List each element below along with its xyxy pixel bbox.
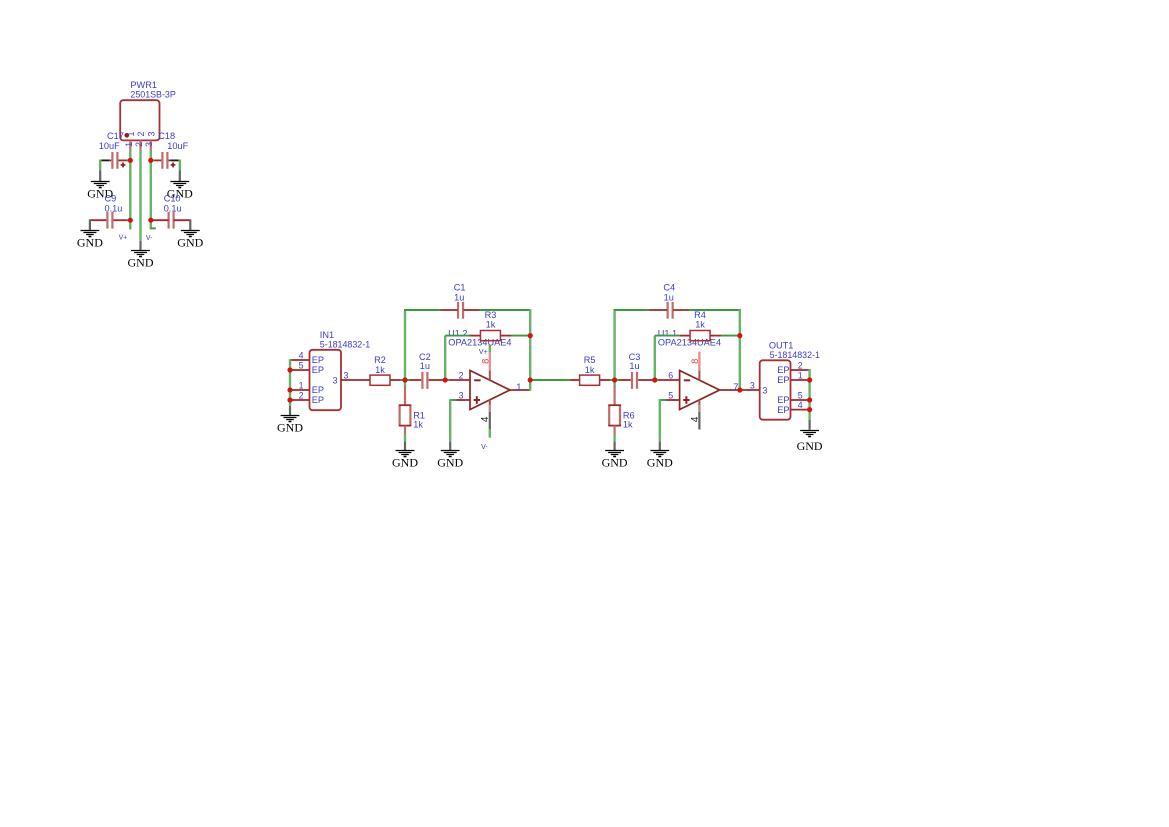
op-amp non-inverting input pin 5 [666, 399, 680, 401]
junction node B2 [652, 377, 657, 382]
IN1 pin 4 stub [290, 359, 310, 361]
wire junction to R1 [404, 380, 406, 387]
connector OUT1 body [760, 360, 791, 419]
junction R4/output net [737, 333, 742, 338]
gnd stub IN1 [289, 406, 291, 416]
R4 left pin [680, 335, 690, 337]
wire C17 to GND (black segment) [100, 159, 109, 161]
svg-text:OUT1: OUT1 [769, 340, 794, 350]
wire C18 to pin3 junction [151, 159, 155, 161]
svg-text:GND: GND [647, 456, 673, 470]
op-amp U1.2 pin 4 wire tail [489, 429, 491, 438]
op-amp power pin 4 [489, 400, 491, 406]
wire R5 to junction [610, 379, 620, 381]
svg-text:4: 4 [480, 416, 491, 422]
OUT1 pin 1 stub [791, 379, 810, 381]
junction C18/pin3 [148, 158, 153, 163]
op-amp power pin 8 [698, 352, 700, 371]
svg-text:1: 1 [516, 382, 521, 393]
svg-text:1k: 1k [486, 319, 496, 329]
svg-text:1k: 1k [375, 365, 385, 375]
R1 bottom pin [404, 426, 406, 435]
gnd stub PWR1 pin2 [139, 241, 141, 251]
capacitor C10 label [164, 194, 182, 214]
ground at PWR1 pin 2 [128, 251, 154, 270]
svg-text:EP: EP [312, 365, 324, 375]
svg-text:1k: 1k [585, 365, 595, 375]
svg-text:5-1814832-1: 5-1814832-1 [320, 340, 370, 350]
svg-text:C4: C4 [663, 282, 675, 292]
OUT1 pin numbers [798, 360, 803, 410]
svg-text:1k: 1k [623, 419, 633, 429]
gnd stub below R6 [613, 442, 615, 451]
svg-text:PWR1: PWR1 [130, 80, 157, 90]
ground at C17 [87, 182, 113, 201]
capacitor C1 [440, 302, 480, 319]
wire R3 to output node [511, 335, 530, 337]
IN1 pin names EP [312, 355, 324, 405]
wire C4 top left [614, 309, 650, 311]
capacitor C3 [619, 372, 652, 389]
PWR1 pin 2 stub [139, 140, 141, 150]
wire non-inverting input to gnd [660, 399, 667, 401]
capacitor C9 [90, 212, 128, 229]
capacitor C2 label [419, 352, 431, 371]
R6 bottom pin [613, 426, 615, 435]
junction node A1 [402, 377, 407, 382]
IN1 pin 3 stub / wire to R2 [341, 379, 370, 381]
gnd stub C9 [89, 219, 91, 230]
wire R4 left vertical [654, 336, 656, 381]
R6 top pin [613, 386, 615, 405]
connector OUT1 label [769, 340, 820, 360]
gnd stub C10 [189, 219, 191, 230]
svg-text:V-: V- [481, 444, 488, 451]
ground below R1 [392, 451, 418, 470]
resistor R3 [480, 310, 500, 341]
ground below + input [437, 451, 463, 470]
op-amp inverting input pin 6 [659, 379, 679, 381]
svg-text:3: 3 [750, 380, 755, 390]
svg-text:EP: EP [312, 395, 324, 405]
svg-text:1k: 1k [695, 319, 705, 329]
wire R3 left vertical [444, 336, 446, 381]
gnd stub below R1 [404, 442, 406, 451]
gnd stub non-inverting [449, 442, 451, 451]
connector PWR1 body [120, 100, 159, 140]
svg-text:4: 4 [690, 416, 701, 422]
IN1 pin numbers [299, 350, 304, 400]
svg-text:2: 2 [134, 142, 144, 147]
ground at C9 [77, 231, 103, 250]
wire C2 to op-amp junction [443, 379, 451, 381]
ground at IN1 [277, 416, 303, 435]
gnd stub C18 [179, 170, 181, 181]
junction C9/pin1 [128, 218, 133, 223]
svg-text:GND: GND [437, 456, 463, 470]
op-amp U1.2 [470, 371, 510, 410]
PWR1 pin 1 stub [129, 140, 131, 150]
PWR1 pin-1 marker dot [125, 133, 130, 138]
svg-text:V+: V+ [479, 349, 488, 356]
IN1 pin 1 stub [290, 389, 310, 391]
svg-text:GND: GND [392, 456, 418, 470]
wire to R3 [445, 335, 470, 337]
R3 right pin [501, 335, 512, 337]
svg-text:EP: EP [777, 395, 789, 405]
R3 left pin [470, 335, 480, 337]
wire stage1 output to R5 [530, 379, 570, 381]
svg-text:1u: 1u [664, 293, 674, 303]
junction IN1 pin5 [287, 367, 292, 372]
svg-text:EP: EP [777, 375, 789, 385]
capacitor C9 label [105, 194, 123, 214]
svg-text:IN1: IN1 [320, 330, 334, 340]
wire R2 to junction [400, 379, 410, 381]
PWR1 pin names 1 2 3 (rotated) [124, 142, 154, 147]
op-amp U1.2 label [448, 328, 511, 347]
svg-text:3: 3 [333, 375, 338, 385]
svg-text:2501SB-3P: 2501SB-3P [130, 90, 175, 100]
svg-text:GND: GND [602, 456, 628, 470]
capacitor C1 label [454, 282, 466, 302]
ground below R6 [602, 451, 628, 470]
wire R4 to output node [721, 335, 740, 337]
svg-text:3: 3 [144, 142, 154, 147]
wire C3 to op-amp junction [652, 379, 660, 381]
gnd stub C17 [99, 170, 101, 181]
svg-text:C18: C18 [158, 131, 175, 141]
svg-text:GND: GND [128, 256, 154, 270]
op-amp U1.2 power pin 8 wire tip [489, 345, 491, 352]
capacitor C4 label [663, 282, 675, 302]
ground below + input [647, 451, 673, 470]
svg-text:4: 4 [798, 400, 803, 410]
connector IN1 body [310, 350, 342, 410]
op-amp output pin 1 [510, 389, 530, 391]
capacitor C17 [109, 152, 127, 169]
op-amp pin 4 stub (gray) [698, 411, 700, 429]
svg-text:C1: C1 [454, 282, 466, 292]
OUT1 pin 2 stub [791, 369, 810, 371]
ground at C10 [177, 231, 203, 250]
svg-text:EP: EP [777, 365, 789, 375]
junction C10/pin3 [148, 218, 153, 223]
resistor R2 [370, 355, 390, 385]
wire non-inverting gnd vertical [449, 399, 451, 442]
junction stage2 output [737, 387, 742, 392]
wire V- net vertical (PWR1 pin 3) [150, 150, 152, 229]
R5 right pin [600, 379, 611, 381]
capacitor C18 label [158, 131, 188, 151]
svg-text:EP: EP [312, 385, 324, 395]
svg-text:5: 5 [668, 390, 673, 400]
junction C17/pin1 [128, 158, 133, 163]
junction IN1 pin2 [287, 397, 292, 402]
svg-text:EP: EP [312, 355, 324, 365]
wire IN1 ground bus [289, 359, 291, 406]
svg-text:4: 4 [299, 350, 304, 360]
wire junction to R6 [613, 380, 615, 387]
capacitor C17 label [99, 131, 124, 151]
resistor R1 [399, 405, 425, 429]
wire to R4 [655, 335, 680, 337]
svg-text:C9: C9 [105, 194, 117, 204]
svg-text:3: 3 [146, 131, 156, 136]
wire output node vertical [739, 309, 741, 391]
capacitor C10 [153, 212, 191, 229]
junction IN1 pin1 [287, 387, 292, 392]
svg-text:5-1814832-1: 5-1814832-1 [770, 350, 820, 360]
IN1 pin 5 stub [290, 369, 310, 371]
wire V+ net vertical (PWR1 pin 1) [129, 150, 131, 230]
junction stage1 output [528, 377, 533, 382]
op-amp pin 4 stub (gray) [489, 411, 491, 429]
gnd stub non-inverting [659, 442, 661, 451]
wire non-inverting gnd vertical [659, 399, 661, 442]
OUT1 pin names EP [777, 365, 789, 415]
wire GND net vertical (PWR1 pin 2) [139, 150, 141, 241]
ground at C18 [167, 182, 193, 201]
svg-text:1u: 1u [454, 293, 464, 303]
svg-text:5: 5 [798, 390, 803, 400]
capacitor C3 label [629, 352, 641, 371]
svg-text:1: 1 [798, 370, 803, 380]
junction node A2 [612, 377, 617, 382]
connector IN1 label [320, 330, 370, 350]
svg-text:3: 3 [344, 370, 349, 380]
R4 right pin [710, 335, 721, 337]
svg-text:5: 5 [299, 360, 304, 370]
svg-text:2: 2 [459, 370, 464, 380]
wire V- net stub horizontal [151, 227, 156, 229]
junction node B1 [443, 377, 448, 382]
OUT1 pin 3 stub [740, 389, 760, 391]
wire OUT1 ground bus [808, 369, 810, 420]
PWR1 pin numbers 1 2 3 (rotated) [126, 131, 156, 136]
svg-text:1u: 1u [420, 361, 430, 371]
svg-text:2: 2 [798, 360, 803, 370]
ground at OUT1 [797, 431, 823, 454]
svg-text:1: 1 [299, 380, 304, 390]
svg-text:1k: 1k [413, 419, 423, 429]
svg-text:GND: GND [797, 439, 823, 453]
wire non-inverting input to gnd [450, 399, 457, 401]
wire R6 to gnd [613, 434, 615, 441]
R2 right pin [390, 379, 401, 381]
wire output node vertical [529, 309, 531, 391]
svg-text:R2: R2 [374, 355, 386, 365]
op-amp inverting input pin 2 [450, 379, 470, 381]
junction OUT1 pin1 [807, 377, 812, 382]
svg-text:3: 3 [459, 390, 464, 400]
svg-text:8: 8 [480, 359, 491, 364]
svg-text:10uF: 10uF [99, 141, 120, 151]
wire R1 to gnd [404, 434, 406, 441]
wire C1 top left [404, 309, 440, 311]
op-amp non-inverting input pin 3 [456, 399, 470, 401]
wire C4 top right [689, 309, 740, 311]
junction OUT1 pin5 [807, 397, 812, 402]
svg-text:10uF: 10uF [167, 141, 188, 151]
svg-text:GND: GND [277, 421, 303, 435]
resistor R4 [690, 310, 710, 341]
svg-text:1: 1 [124, 142, 134, 147]
resistor R5 [580, 355, 600, 385]
wire C17 to pin1 junction [127, 159, 131, 161]
svg-text:2: 2 [299, 390, 304, 400]
svg-text:GND: GND [77, 235, 103, 249]
svg-text:1u: 1u [629, 361, 639, 371]
op-amp power pin 8 [489, 352, 491, 371]
wire C9 to pin1 junction [127, 219, 131, 221]
op-amp U1.1 label [658, 328, 721, 347]
wire C17 gnd vertical [99, 160, 101, 171]
svg-text:V+: V+ [119, 234, 128, 241]
svg-text:EP: EP [777, 405, 789, 415]
capacitor C4 [649, 302, 689, 319]
svg-text:C10: C10 [164, 194, 181, 204]
R5 left pin [570, 379, 580, 381]
gnd stub OUT1 [808, 420, 810, 430]
op-amp power pin 4 [698, 400, 700, 406]
svg-text:8: 8 [689, 359, 700, 364]
wire C1 top right [480, 309, 531, 311]
PWR1 pin 3 stub [150, 140, 152, 150]
wire C18 to GND (black segment) [171, 159, 180, 161]
connector PWR1 label [130, 80, 175, 100]
junction R3/output net [528, 333, 533, 338]
junction OUT1 pin4 [807, 407, 812, 412]
wire junction to C1 [404, 310, 406, 379]
op-amp U1.1 [680, 371, 720, 410]
svg-text:C17: C17 [107, 131, 124, 141]
IN1 pin 2 stub [290, 399, 310, 401]
R1 top pin [404, 386, 406, 405]
op-amp output pin 7 [720, 389, 740, 391]
svg-text:2: 2 [136, 131, 146, 136]
svg-text:V-: V- [146, 235, 153, 242]
OUT1 pin 4 stub [791, 409, 810, 411]
capacitor C18 [154, 152, 175, 169]
svg-text:R5: R5 [584, 355, 596, 365]
wire C10 to pin3 junction [151, 219, 154, 221]
capacitor C2 [410, 372, 443, 389]
wire C18 gnd vertical [179, 160, 181, 171]
OUT1 pin 5 stub [791, 399, 810, 401]
resistor R6 [608, 405, 634, 429]
wire junction to C4 [613, 310, 615, 379]
svg-text:GND: GND [177, 235, 203, 249]
svg-text:3: 3 [763, 385, 768, 395]
svg-text:6: 6 [668, 370, 673, 380]
